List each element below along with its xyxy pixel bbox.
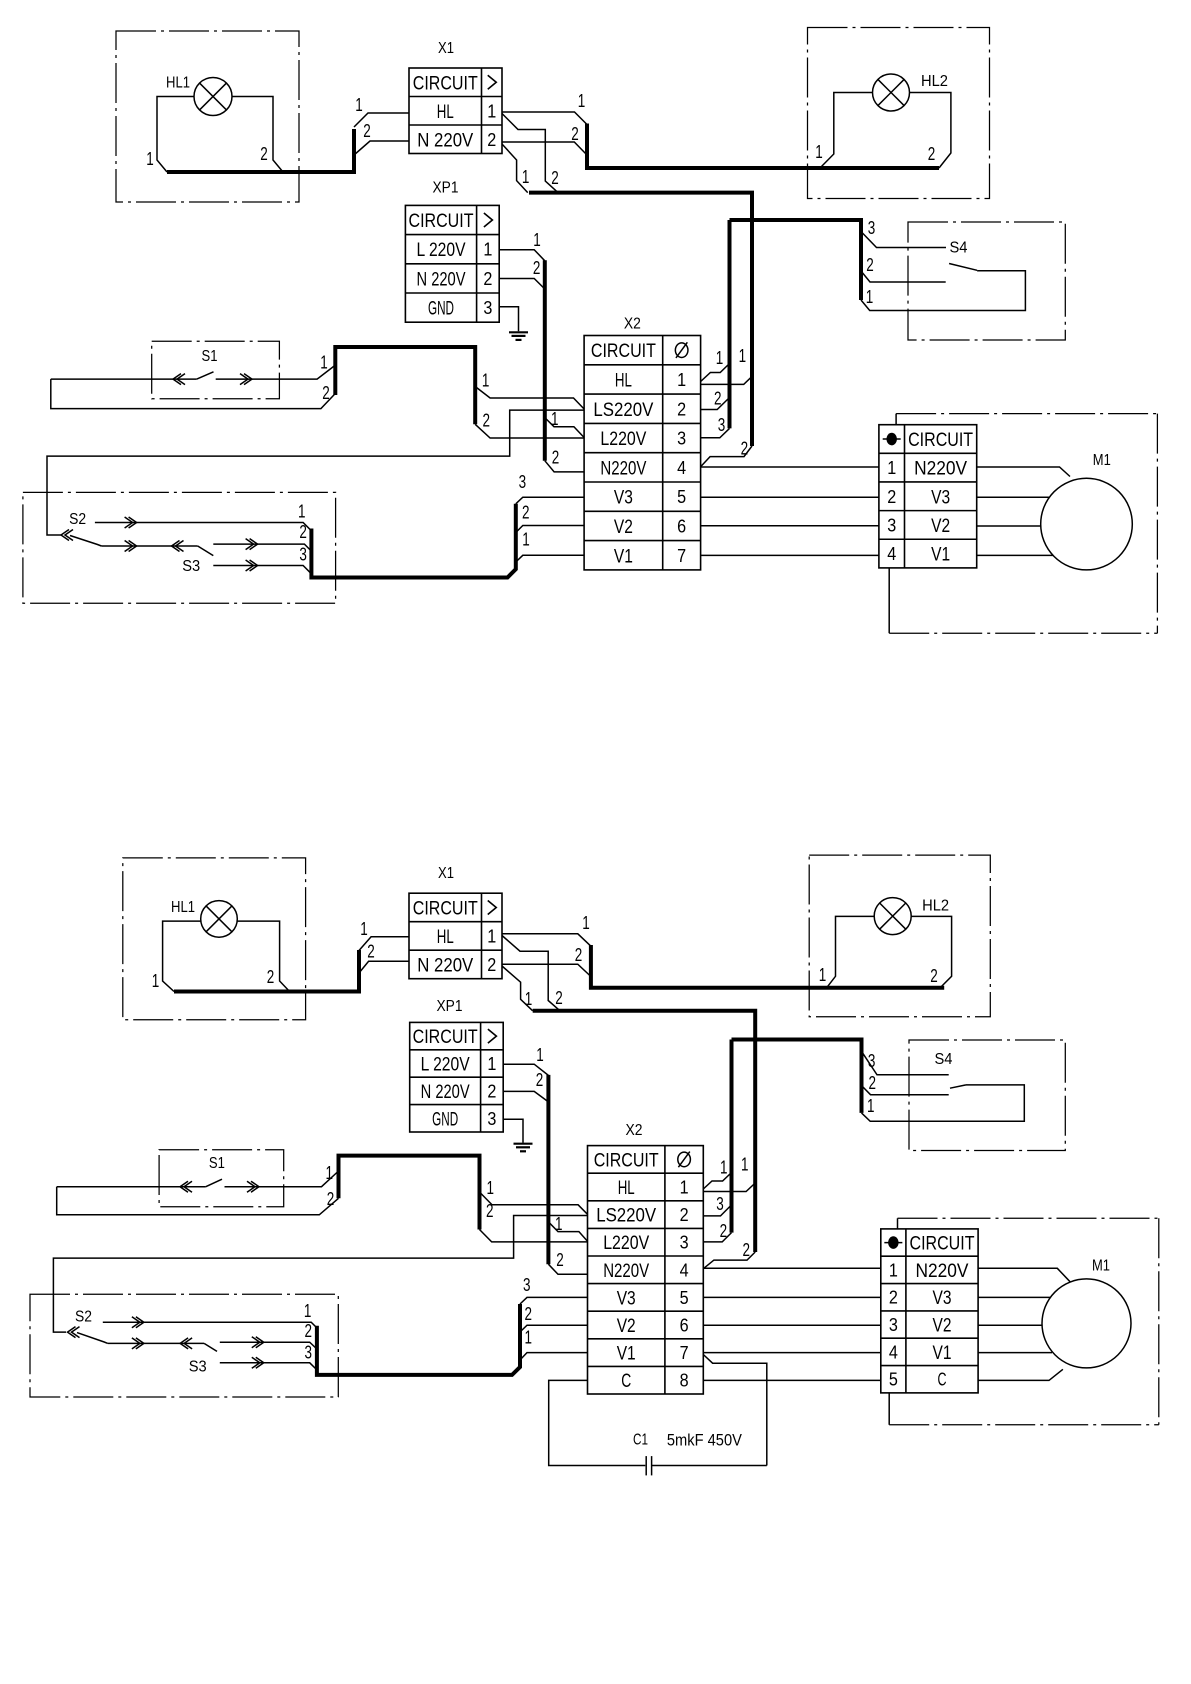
wire X2 pin 5 to M1 pin 2 — [701, 496, 879, 498]
wire 2 from speed cable to X2 pin 6 (V2) — [520, 1325, 588, 1332]
wire M1 pin 2 to motor — [978, 1296, 1050, 1298]
cable S1 to X2 (thick) — [339, 1156, 480, 1230]
svg-text:N220V: N220V — [914, 459, 967, 480]
svg-text:HL: HL — [615, 370, 632, 391]
svg-text:1: 1 — [720, 1157, 728, 1178]
svg-text:2: 2 — [486, 1200, 494, 1221]
svg-text:N220V: N220V — [603, 1261, 649, 1282]
cable X1 to S4 and X2 (thick) — [533, 1011, 756, 1252]
wire X2 pin 3 from S4 cable — [703, 1233, 731, 1242]
svg-text:1: 1 — [487, 926, 496, 946]
wire 2 cable to X1 pin N220V — [359, 961, 409, 973]
switch S1 blade — [206, 1179, 222, 1187]
svg-text:3: 3 — [299, 543, 307, 564]
wire S2-S3 rail — [101, 545, 197, 547]
svg-text:1: 1 — [487, 1054, 496, 1074]
svg-text:1: 1 — [525, 1327, 533, 1348]
cable S2 S3 to X2 (thick) — [317, 1304, 520, 1375]
svg-text:3: 3 — [716, 1193, 724, 1214]
M1 box corner stub — [897, 1218, 899, 1229]
cable S4 to X2 (thick) — [730, 1040, 734, 1233]
svg-text:HL2: HL2 — [922, 898, 949, 915]
wire XP1 pin 1 to cable — [503, 1064, 548, 1075]
cable HL1 to X1 (thick) — [174, 950, 359, 992]
svg-text:1: 1 — [739, 345, 747, 366]
wire XP1 pin 1 to cable — [499, 250, 545, 261]
svg-text:GND: GND — [428, 299, 454, 320]
svg-text:L 220V: L 220V — [417, 240, 466, 261]
cable XP1 to X2 (thick) — [546, 1075, 550, 1264]
wire S3 contact down — [213, 566, 311, 574]
svg-text:1: 1 — [146, 148, 154, 169]
switch S2 blade — [65, 530, 73, 541]
wire X2 pin 4 to M1 pin 1 — [701, 466, 879, 468]
svg-text:2: 2 — [741, 437, 749, 458]
svg-text:V3: V3 — [933, 1288, 952, 1309]
svg-text:L220V: L220V — [603, 1233, 649, 1254]
connector XP1 — [410, 1022, 504, 1132]
svg-text:1: 1 — [551, 408, 559, 429]
svg-text:CIRCUIT: CIRCUIT — [413, 73, 478, 94]
switch S3 blade — [198, 546, 214, 556]
wire X2 pin 7 to M1 pin 4 — [701, 554, 879, 556]
enclosure box (dash-dot) around lamp HL2 — [809, 855, 990, 1017]
svg-text:S1: S1 — [202, 348, 218, 365]
svg-text:1: 1 — [887, 458, 896, 478]
ground symbol — [514, 1143, 533, 1145]
svg-text:3: 3 — [523, 1274, 531, 1295]
svg-text:2: 2 — [720, 1220, 728, 1241]
wire X1 pin 1 to lower cable, label 2 — [502, 114, 558, 193]
wire XP1 pin 3 to ground — [499, 307, 518, 332]
enclosure box (dash-dot) around motor M1 — [898, 1217, 1159, 1219]
wire X2 pin 4 to M1 pin 1 — [703, 1267, 881, 1269]
enclosure box (dash-dot) around lamp HL1 — [116, 31, 299, 202]
svg-text:4: 4 — [887, 544, 896, 564]
svg-text:HL1: HL1 — [171, 899, 195, 916]
wire X2 pin 1 to S4 cable — [701, 364, 730, 382]
wire X2 pin 6 to M1 pin 3 — [703, 1324, 881, 1326]
svg-text:HL1: HL1 — [166, 75, 190, 92]
wire HL2 pin 1 from cable — [820, 93, 873, 169]
svg-text:1: 1 — [536, 1044, 544, 1065]
wire XP1 pin 2 to cable — [503, 1091, 548, 1102]
capacitor C1 — [645, 1456, 647, 1475]
svg-text:1: 1 — [716, 347, 724, 368]
wire X1 pin 1 to HL2 cable — [502, 934, 591, 946]
wire M1 pin 3 to motor — [978, 1324, 1042, 1326]
svg-text:2: 2 — [487, 130, 496, 150]
svg-text:2: 2 — [551, 167, 559, 188]
wire S1 return — [51, 379, 336, 409]
wire X1 pin 2 to lower cable, label 1 — [502, 144, 528, 193]
cable S1 to X2 (thick) — [335, 347, 475, 424]
svg-text:N 220V: N 220V — [417, 130, 473, 151]
ground symbol — [509, 331, 528, 333]
svg-text:1: 1 — [152, 970, 160, 991]
wire M1 pin 4 to motor — [977, 554, 1053, 556]
svg-text:V1: V1 — [933, 1343, 952, 1364]
svg-text:CIRCUIT: CIRCUIT — [591, 341, 656, 362]
svg-text:6: 6 — [680, 1316, 689, 1336]
wire S1 common — [57, 1186, 206, 1188]
svg-text:LS220V: LS220V — [593, 400, 653, 421]
svg-text:1: 1 — [483, 240, 492, 260]
wire S1 to X2 pin 3 (L220V) — [480, 1230, 588, 1242]
svg-text:S2: S2 — [75, 1308, 92, 1325]
svg-text:1: 1 — [741, 1154, 749, 1175]
wire S1 return — [57, 1187, 339, 1215]
svg-text:2: 2 — [552, 447, 560, 468]
wire X2 pin 8 to capacitor C1 — [549, 1380, 646, 1465]
svg-text:2: 2 — [556, 1249, 564, 1270]
wire XP1 pin 3 to ground — [503, 1119, 523, 1143]
svg-text:HL: HL — [437, 102, 454, 123]
enclosure box (dash-dot) around switch S4 — [909, 1040, 1065, 1151]
svg-text:1: 1 — [522, 528, 530, 549]
svg-text:1: 1 — [355, 94, 363, 115]
wire M1 pin 1 to motor — [978, 1268, 1070, 1281]
switch S2 blade — [72, 1327, 80, 1338]
wire XP1-1 to X2 pin 3 — [548, 1222, 587, 1241]
connector of motor M1 — [881, 1229, 978, 1393]
M1 housing link — [888, 1393, 890, 1425]
wire S3 contact up — [220, 1342, 317, 1349]
wire HL2 pin 2 from cable — [911, 916, 951, 988]
svg-text:X2: X2 — [626, 1122, 643, 1139]
svg-text:1: 1 — [525, 988, 533, 1009]
svg-text:2: 2 — [742, 1239, 750, 1260]
wire 2 from speed cable to X2 pin 6 (V2) — [516, 526, 584, 533]
svg-text:HL2: HL2 — [921, 73, 948, 90]
svg-text:1: 1 — [815, 141, 823, 162]
svg-text:HL: HL — [437, 927, 454, 948]
enclosure box (dash-dot) around switches S2 S3 — [23, 492, 336, 603]
wire M1 pin 3 to motor — [977, 525, 1041, 527]
svg-text:CIRCUIT: CIRCUIT — [908, 430, 973, 451]
wire HL2 pin 1 from cable — [826, 916, 874, 988]
lamp HL2 — [874, 898, 911, 935]
svg-text:2: 2 — [714, 387, 722, 408]
cable to S4 (thick) — [730, 220, 862, 300]
svg-text:C: C — [621, 1371, 631, 1392]
enclosure box (dash-dot) around switch S1 — [159, 1150, 284, 1207]
wire 2 to S4 — [862, 1086, 949, 1095]
cable HL1 to X1 (thick) — [167, 129, 354, 172]
svg-text:1: 1 — [326, 1162, 334, 1183]
svg-text:XP1: XP1 — [437, 998, 463, 1015]
wire HL1 pin 2 to cable — [232, 97, 283, 173]
wire S2 contact 1 — [103, 1322, 317, 1328]
cable X1 to HL2 (thick) — [587, 124, 939, 169]
svg-text:X2: X2 — [624, 316, 641, 333]
svg-text:3: 3 — [889, 1315, 898, 1335]
cable XP1 to X2 (thick) — [543, 260, 547, 460]
wire XP1-1 to X2 pin 3 — [545, 418, 584, 438]
wire 3 to S4 — [862, 1051, 949, 1075]
svg-text:2: 2 — [487, 955, 496, 975]
svg-text:2: 2 — [887, 487, 896, 507]
svg-text:3: 3 — [718, 414, 726, 435]
svg-text:C: C — [938, 1370, 947, 1390]
enclosure box (dash-dot) around switch S1 — [152, 341, 280, 399]
wire S1 common — [51, 378, 197, 380]
wire S2 contact 1 — [95, 523, 312, 531]
wire X2 pin 2 to S4 cable — [703, 1205, 731, 1216]
motor M1 — [1042, 1279, 1131, 1368]
svg-text:1: 1 — [867, 1095, 875, 1116]
wire XP1-2 to X2 pin 4 (N220V) — [545, 461, 584, 472]
svg-text:CIRCUIT: CIRCUIT — [594, 1150, 659, 1171]
svg-text:V2: V2 — [614, 517, 633, 538]
svg-text:3: 3 — [519, 471, 527, 492]
motor M1 — [1041, 478, 1133, 570]
svg-text:1: 1 — [320, 352, 328, 373]
wire 1 loop from S4 contact — [861, 271, 1025, 311]
wire 1 cable to X1 pin HL — [359, 937, 409, 951]
switch S4 blade — [950, 1085, 966, 1088]
svg-text:3: 3 — [305, 1342, 313, 1363]
svg-text:1: 1 — [304, 1300, 312, 1321]
wire S3 contact up — [213, 544, 311, 551]
wire X2 pin 1 to X1 cable — [703, 1183, 755, 1192]
svg-text:8: 8 — [680, 1371, 689, 1391]
svg-text:V3: V3 — [617, 1288, 636, 1309]
svg-text:N 220V: N 220V — [417, 955, 473, 976]
svg-text:1: 1 — [582, 912, 590, 933]
svg-text:2: 2 — [928, 143, 936, 164]
svg-text:CIRCUIT: CIRCUIT — [409, 211, 474, 232]
svg-text:CIRCUIT: CIRCUIT — [413, 1027, 478, 1048]
wire 1 loop from S4 contact — [862, 1085, 1025, 1121]
wire 1 cable to X1 pin HL — [354, 113, 409, 127]
wire 1 from speed cable to X2 pin 7 (V1) — [520, 1353, 588, 1360]
svg-text:V3: V3 — [614, 488, 633, 509]
switch S3 blade — [204, 1343, 217, 1351]
wire 2 cable to X1 pin N220V — [354, 141, 409, 155]
wire X2 pin 1 to S4 cable — [703, 1173, 731, 1190]
svg-text:2: 2 — [866, 254, 874, 275]
wire X2 pin 3 from S4 cable — [701, 428, 730, 437]
wire X2 pin 7 to capacitor C1 — [703, 1355, 767, 1466]
svg-text:2: 2 — [322, 382, 330, 403]
svg-text:3: 3 — [487, 1109, 496, 1129]
svg-text:2: 2 — [555, 987, 563, 1008]
svg-text:2: 2 — [525, 1303, 533, 1324]
svg-text:2: 2 — [533, 257, 541, 278]
svg-text:S4: S4 — [935, 1051, 953, 1068]
svg-text:CIRCUIT: CIRCUIT — [413, 898, 478, 919]
wire XP1-2 to X2 pin 4 (N220V) — [548, 1264, 587, 1274]
cable S4 to X2 (thick) — [728, 220, 732, 428]
svg-text:2: 2 — [483, 269, 492, 289]
wire X2 pin 6 to M1 pin 3 — [701, 525, 879, 527]
svg-text:1: 1 — [533, 229, 541, 250]
svg-text:S2: S2 — [69, 511, 86, 528]
connector XP1 — [405, 205, 499, 322]
svg-text:V2: V2 — [933, 1316, 952, 1337]
switch S1 blade — [197, 372, 214, 379]
wire X1 pin 2 to HL2 cable — [502, 142, 587, 155]
wire X1 pin 2 to lower cable, label 1 — [502, 966, 533, 1011]
svg-text:V3: V3 — [931, 487, 950, 508]
svg-text:L220V: L220V — [600, 429, 646, 450]
wire 1 from speed cable to X2 pin 7 (V1) — [516, 555, 584, 562]
wire 3 from speed cable to X2 pin 5 (V3) — [516, 497, 584, 504]
svg-text:6: 6 — [677, 516, 686, 536]
svg-text:V1: V1 — [931, 545, 950, 566]
enclosure box (dash-dot) around switch S4 — [908, 222, 1065, 340]
wire X2 pin 8 to M1 pin 5 — [703, 1379, 881, 1381]
connector of motor M1 — [879, 425, 977, 568]
svg-text:1: 1 — [578, 90, 586, 111]
svg-text:N 220V: N 220V — [421, 1082, 470, 1103]
svg-text:1: 1 — [487, 101, 496, 121]
svg-text:3: 3 — [868, 1050, 876, 1071]
wire X2 pin 7 to M1 pin 4 — [703, 1352, 881, 1354]
svg-text:7: 7 — [677, 546, 686, 566]
svg-text:2: 2 — [305, 1320, 313, 1341]
wire HL2 pin 2 from cable — [910, 93, 951, 169]
switch S4 blade — [949, 264, 977, 271]
svg-text:1: 1 — [555, 1213, 563, 1234]
svg-text:2: 2 — [367, 941, 375, 962]
svg-text:1: 1 — [889, 1260, 898, 1280]
svg-text:2: 2 — [677, 399, 686, 419]
svg-text:V2: V2 — [617, 1316, 636, 1337]
svg-text:X1: X1 — [438, 40, 454, 57]
svg-text:5: 5 — [677, 487, 686, 507]
wire 3 to S4 — [861, 232, 946, 248]
svg-text:1: 1 — [298, 500, 306, 521]
svg-text:5mkF 450V: 5mkF 450V — [667, 1432, 742, 1450]
wire HL1 pin 1 to cable — [157, 97, 194, 173]
wire S1 to X2 pin 2 (LS220V) — [475, 387, 584, 410]
wire X1 pin 1 to HL2 cable — [502, 112, 587, 125]
svg-text:3: 3 — [680, 1233, 689, 1253]
lamp HL1 — [194, 78, 232, 116]
svg-text:2: 2 — [869, 1072, 877, 1093]
wire X2 pin 5 to M1 pin 2 — [703, 1296, 881, 1298]
svg-text:3: 3 — [868, 217, 876, 238]
svg-text:M1: M1 — [1092, 1258, 1110, 1275]
svg-text:7: 7 — [680, 1343, 689, 1363]
svg-text:2: 2 — [327, 1188, 335, 1209]
svg-text:2: 2 — [930, 965, 938, 986]
cable to S4 (thick) — [732, 1040, 862, 1113]
wire 2 to S4 — [861, 271, 946, 282]
svg-text:M1: M1 — [1093, 452, 1111, 469]
svg-text:S1: S1 — [209, 1155, 225, 1172]
enclosure box (dash-dot) around lamp HL2 — [808, 28, 990, 199]
svg-text:HL: HL — [618, 1178, 635, 1199]
svg-text:GND: GND — [432, 1109, 458, 1130]
svg-text:2: 2 — [260, 143, 268, 164]
wire S2 common to X2 pin 2 — [47, 410, 584, 535]
wire X2 pin 4 from X1 cable — [701, 446, 752, 467]
wire X1 pin 2 to HL2 cable — [502, 964, 591, 976]
svg-text:2: 2 — [267, 966, 275, 987]
svg-text:2: 2 — [575, 944, 583, 965]
svg-text:V1: V1 — [617, 1344, 636, 1365]
M1 box corner stub — [895, 414, 897, 425]
svg-text:N220V: N220V — [600, 458, 646, 479]
svg-text:2: 2 — [483, 410, 491, 431]
wire S2 common to X2 pin 2 — [53, 1216, 587, 1333]
svg-text:1: 1 — [819, 964, 827, 985]
wire HL1 pin 2 to cable — [237, 921, 289, 991]
svg-text:3: 3 — [887, 515, 896, 535]
svg-text:1: 1 — [680, 1178, 689, 1198]
enclosure box (dash-dot) around lamp HL1 — [123, 858, 306, 1020]
svg-text:4: 4 — [889, 1342, 898, 1362]
wire X2 pin 4 from X1 cable — [704, 1252, 755, 1268]
svg-text:S3: S3 — [182, 558, 200, 575]
wire M1 pin 5 to motor — [978, 1369, 1063, 1380]
svg-text:V2: V2 — [931, 516, 950, 537]
wire XP1 pin 2 to cable — [499, 279, 545, 290]
cable X1 to S4 and X2 (thick) — [529, 193, 752, 446]
svg-text:1: 1 — [866, 286, 874, 307]
svg-text:4: 4 — [677, 458, 686, 478]
wire M1 pin 1 to motor — [977, 467, 1070, 477]
svg-text:CIRCUIT: CIRCUIT — [910, 1234, 975, 1255]
lamp HL1 — [201, 901, 238, 938]
svg-text:XP1: XP1 — [433, 180, 459, 197]
svg-text:C1: C1 — [633, 1432, 648, 1449]
wire S1 to X2 pin 2 (LS220V) — [480, 1192, 588, 1214]
svg-text:2: 2 — [522, 502, 530, 523]
wire M1 pin 2 to motor — [977, 496, 1050, 498]
svg-text:2: 2 — [889, 1288, 898, 1308]
wire M1 pin 4 to motor — [978, 1352, 1052, 1354]
wire X1 pin 1 to lower cable, label 2 — [502, 936, 560, 1011]
svg-text:1: 1 — [677, 370, 686, 390]
svg-text:S3: S3 — [189, 1358, 207, 1375]
svg-text:1: 1 — [522, 166, 530, 187]
wire 3 from speed cable to X2 pin 5 (V3) — [520, 1297, 588, 1304]
svg-text:2: 2 — [299, 521, 307, 542]
svg-text:3: 3 — [483, 298, 492, 318]
svg-text:L 220V: L 220V — [421, 1055, 470, 1076]
svg-text:3: 3 — [677, 429, 686, 449]
svg-text:N220V: N220V — [916, 1261, 969, 1282]
cable S2 S3 to X2 (thick) — [311, 504, 515, 578]
svg-text:2: 2 — [487, 1081, 496, 1101]
lamp HL2 — [873, 74, 910, 111]
svg-text:2: 2 — [363, 120, 371, 141]
svg-text:V1: V1 — [614, 546, 633, 567]
svg-text:S4: S4 — [950, 240, 968, 257]
M1 housing link — [888, 568, 890, 633]
svg-text:5: 5 — [680, 1288, 689, 1308]
svg-text:4: 4 — [680, 1260, 689, 1280]
cable X1 to HL2 (thick) — [591, 945, 944, 988]
enclosure box (dash-dot) around motor M1 — [896, 413, 1157, 415]
wire HL1 pin 1 to cable — [163, 921, 201, 991]
wire X2 pin 2 to S4 cable — [701, 398, 730, 410]
svg-text:X1: X1 — [438, 865, 454, 882]
svg-text:1: 1 — [482, 369, 490, 390]
svg-text:2: 2 — [571, 123, 579, 144]
svg-text:2: 2 — [536, 1069, 544, 1090]
enclosure box (dash-dot) around switches S2 S3 — [30, 1294, 338, 1397]
svg-text:1: 1 — [486, 1177, 494, 1198]
svg-text:N 220V: N 220V — [417, 269, 466, 290]
wire S3 contact down — [220, 1363, 317, 1370]
svg-text:LS220V: LS220V — [596, 1206, 656, 1227]
wire S2-S3 rail — [108, 1342, 204, 1344]
